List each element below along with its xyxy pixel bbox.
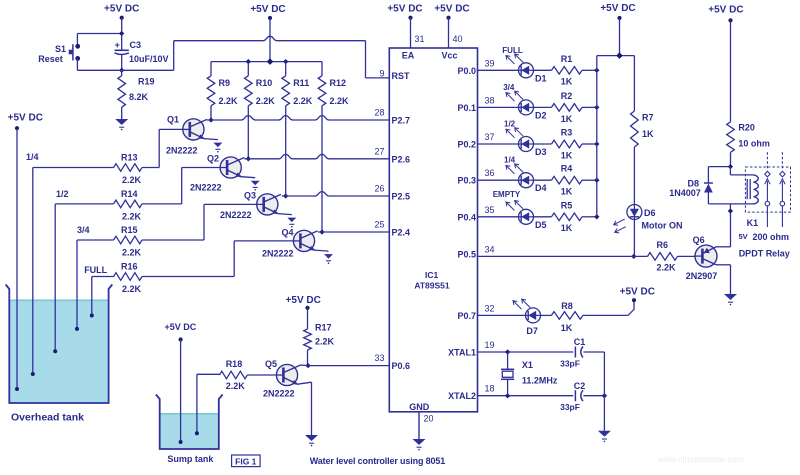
svg-text:31: 31 [415, 34, 425, 44]
svg-text:D5: D5 [535, 220, 547, 230]
svg-text:26: 26 [374, 184, 384, 194]
svg-text:37: 37 [485, 132, 495, 142]
svg-text:R7: R7 [642, 113, 654, 123]
svg-text:1/4: 1/4 [504, 156, 516, 165]
svg-text:28: 28 [374, 108, 384, 118]
svg-text:+5V DC: +5V DC [387, 4, 422, 15]
svg-text:20: 20 [424, 414, 434, 424]
svg-text:11.2MHz: 11.2MHz [522, 375, 558, 385]
svg-text:R15: R15 [121, 225, 138, 235]
svg-text:1K: 1K [561, 150, 573, 160]
svg-text:Water level controller using 8: Water level controller using 8051 [310, 456, 445, 466]
svg-text:2.2K: 2.2K [330, 96, 350, 106]
svg-text:2.2K: 2.2K [122, 284, 142, 294]
svg-text:FULL: FULL [502, 46, 523, 55]
svg-text:2.2K: 2.2K [657, 263, 677, 273]
svg-text:+5V DC: +5V DC [165, 322, 197, 332]
svg-text:2.2K: 2.2K [122, 211, 142, 221]
svg-text:P2.5: P2.5 [392, 192, 411, 202]
svg-text:+5V DC: +5V DC [286, 295, 321, 306]
svg-text:Q3: Q3 [244, 191, 256, 201]
svg-text:2.2K: 2.2K [122, 248, 142, 258]
svg-text:P0.0: P0.0 [457, 66, 476, 76]
svg-text:Motor ON: Motor ON [642, 220, 683, 230]
svg-text:Q1: Q1 [167, 115, 179, 125]
svg-text:FIG 1: FIG 1 [235, 456, 257, 466]
svg-text:33: 33 [374, 353, 384, 363]
svg-text:P2.6: P2.6 [392, 154, 411, 164]
svg-text:Sump tank: Sump tank [167, 454, 214, 464]
svg-text:33pF: 33pF [560, 359, 580, 369]
svg-text:+5V DC: +5V DC [434, 4, 469, 15]
svg-text:RST: RST [392, 71, 411, 81]
svg-text:2.2K: 2.2K [226, 381, 246, 391]
svg-text:2N2222: 2N2222 [166, 146, 198, 156]
svg-text:34: 34 [485, 244, 495, 254]
svg-text:P0.3: P0.3 [457, 176, 476, 186]
svg-text:R16: R16 [121, 262, 138, 272]
svg-text:32: 32 [485, 303, 495, 313]
svg-text:2N2222: 2N2222 [190, 183, 222, 193]
svg-text:D3: D3 [535, 147, 547, 157]
svg-text:Q2: Q2 [207, 154, 219, 164]
svg-text:33pF: 33pF [560, 402, 580, 412]
svg-text:R8: R8 [561, 301, 573, 311]
svg-text:X1: X1 [522, 360, 533, 370]
svg-text:R9: R9 [219, 78, 231, 88]
svg-text:R5: R5 [561, 200, 573, 210]
svg-text:R2: R2 [561, 91, 573, 101]
svg-text:C3: C3 [130, 40, 142, 50]
svg-text:D6: D6 [644, 208, 656, 218]
svg-text:Overhead tank: Overhead tank [11, 412, 84, 424]
svg-text:R13: R13 [121, 153, 138, 163]
svg-text:+5V DC: +5V DC [600, 3, 635, 14]
svg-text:3/4: 3/4 [503, 83, 515, 92]
svg-text:1/2: 1/2 [56, 189, 69, 199]
svg-text:R10: R10 [256, 78, 273, 88]
svg-text:38: 38 [485, 95, 495, 105]
svg-text:9: 9 [379, 69, 384, 79]
svg-text:AT89S51: AT89S51 [414, 281, 450, 291]
svg-text:1K: 1K [561, 114, 573, 124]
svg-text:www.circuitstoday.com: www.circuitstoday.com [657, 454, 743, 464]
svg-text:19: 19 [485, 340, 495, 350]
svg-text:R18: R18 [226, 359, 243, 369]
svg-text:2.2K: 2.2K [122, 175, 142, 185]
svg-text:2.2K: 2.2K [315, 337, 335, 347]
svg-text:R11: R11 [293, 78, 309, 88]
svg-text:P0.6: P0.6 [392, 361, 411, 371]
svg-text:Vcc: Vcc [441, 51, 457, 61]
svg-text:DPDT Relay: DPDT Relay [739, 249, 790, 259]
svg-text:R17: R17 [315, 323, 332, 333]
svg-text:3/4: 3/4 [77, 225, 90, 235]
svg-text:1K: 1K [561, 77, 573, 87]
svg-text:R3: R3 [561, 128, 573, 138]
svg-text:2N2222: 2N2222 [263, 389, 295, 399]
svg-text:EA: EA [402, 51, 415, 61]
svg-text:5V: 5V [739, 232, 748, 241]
svg-text:S1: S1 [55, 44, 66, 54]
svg-text:K1: K1 [747, 218, 759, 228]
svg-text:D4: D4 [535, 183, 547, 193]
svg-text:XTAL2: XTAL2 [448, 391, 476, 401]
svg-text:1N4007: 1N4007 [669, 188, 701, 198]
svg-text:Q5: Q5 [265, 359, 277, 369]
svg-text:XTAL1: XTAL1 [448, 348, 476, 358]
svg-text:8.2K: 8.2K [129, 92, 149, 102]
svg-text:P2.7: P2.7 [392, 116, 411, 126]
svg-text:1/4: 1/4 [26, 152, 39, 162]
svg-text:40: 40 [453, 34, 463, 44]
svg-text:P0.2: P0.2 [457, 140, 476, 150]
svg-text:D1: D1 [535, 73, 547, 83]
svg-text:GND: GND [409, 402, 430, 412]
svg-text:2N2222: 2N2222 [220, 210, 252, 220]
svg-text:35: 35 [485, 205, 495, 215]
svg-text:+5V DC: +5V DC [8, 113, 43, 124]
svg-text:R19: R19 [138, 77, 155, 87]
svg-text:2.2K: 2.2K [219, 96, 239, 106]
svg-text:IC1: IC1 [425, 270, 439, 280]
svg-text:2N2222: 2N2222 [262, 249, 294, 259]
svg-text:FULL: FULL [84, 265, 107, 275]
svg-text:1K: 1K [642, 129, 654, 139]
svg-text:+5V DC: +5V DC [104, 4, 139, 15]
svg-text:39: 39 [485, 58, 495, 68]
svg-text:R4: R4 [561, 164, 573, 174]
svg-text:1K: 1K [561, 223, 573, 233]
svg-text:R1: R1 [561, 54, 573, 64]
svg-text:+: + [115, 40, 120, 50]
svg-text:P0.4: P0.4 [457, 212, 476, 222]
svg-text:Q4: Q4 [281, 228, 293, 238]
svg-text:25: 25 [374, 220, 384, 230]
svg-text:1K: 1K [561, 187, 573, 197]
svg-text:P0.1: P0.1 [457, 103, 476, 113]
svg-text:Q6: Q6 [693, 235, 705, 245]
svg-text:P0.7: P0.7 [457, 311, 476, 321]
svg-text:+5V DC: +5V DC [250, 4, 285, 15]
svg-text:P2.4: P2.4 [392, 228, 411, 238]
svg-text:+5V DC: +5V DC [620, 286, 655, 297]
svg-text:R20: R20 [738, 123, 755, 133]
svg-text:R6: R6 [657, 240, 669, 250]
svg-text:C2: C2 [574, 381, 586, 391]
svg-text:10uF/10V: 10uF/10V [129, 54, 169, 64]
svg-text:+5V DC: +5V DC [708, 5, 743, 16]
svg-text:10 ohm: 10 ohm [738, 139, 770, 149]
svg-text:D2: D2 [535, 110, 547, 120]
svg-text:36: 36 [485, 168, 495, 178]
svg-text:27: 27 [374, 146, 384, 156]
svg-text:R12: R12 [330, 78, 347, 88]
svg-text:2.2K: 2.2K [293, 96, 313, 106]
svg-text:200 ohm: 200 ohm [753, 232, 790, 242]
svg-text:P0.5: P0.5 [457, 249, 476, 259]
svg-text:R14: R14 [121, 189, 138, 199]
svg-text:Reset: Reset [38, 54, 63, 64]
svg-text:C1: C1 [574, 337, 586, 347]
svg-text:D7: D7 [526, 326, 538, 336]
svg-text:18: 18 [485, 384, 495, 394]
svg-text:1/2: 1/2 [504, 120, 516, 129]
svg-text:2N2907: 2N2907 [686, 271, 718, 281]
svg-text:EMPTY: EMPTY [493, 190, 521, 199]
svg-text:D8: D8 [687, 178, 699, 188]
svg-text:1K: 1K [561, 323, 573, 333]
svg-text:2.2K: 2.2K [256, 96, 276, 106]
